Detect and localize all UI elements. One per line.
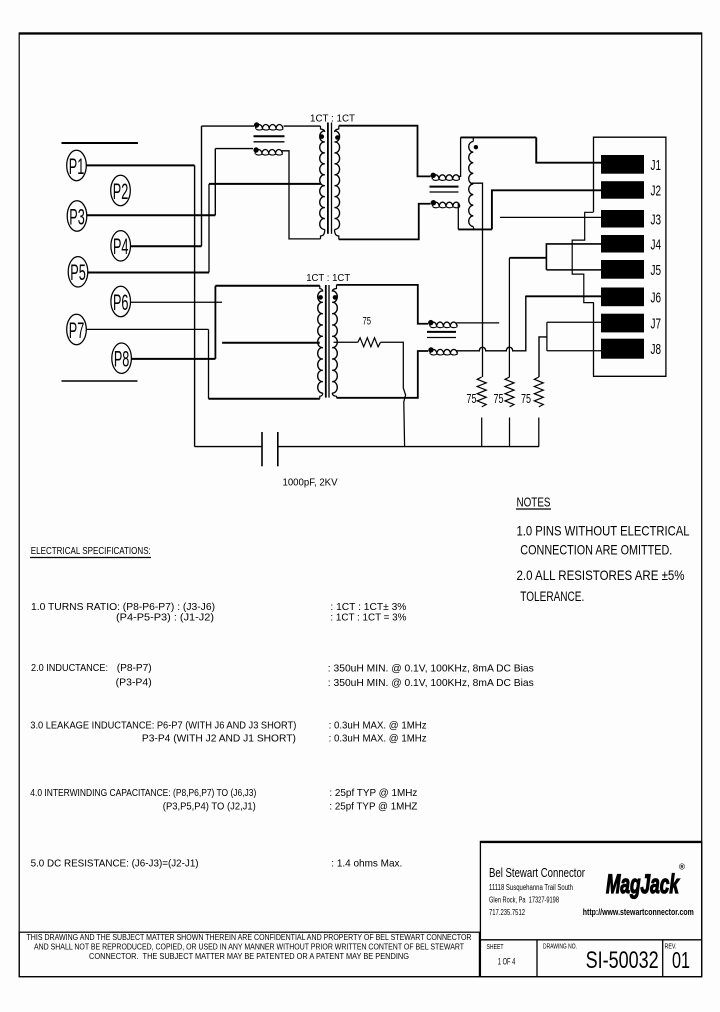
- wire choke L3 upper stub: [456, 322, 499, 324]
- svg-text:1.0 TURNS RATIO: (P8-P6-P7) :: 1.0 TURNS RATIO: (P8-P6-P7) : (J3-J6): [31, 602, 215, 613]
- pin P5: [68, 257, 88, 287]
- pin P1: [67, 150, 87, 180]
- connector pin pad J1: [601, 155, 644, 174]
- wire choke L1 lower to T1 primary bottom: [282, 151, 321, 239]
- pin P2: [111, 175, 131, 205]
- transformer T2 core line 1: [325, 285, 327, 398]
- wire P8 to T2 top: [132, 358, 216, 360]
- transformer T1 core line 1: [327, 123, 329, 234]
- svg-text:2.0 INDUCTANCE:: 2.0 INDUCTANCE:: [31, 663, 108, 674]
- svg-text:J6: J6: [651, 289, 662, 306]
- choke L2 upper winding: [431, 173, 436, 178]
- svg-text:75: 75: [467, 392, 477, 406]
- connector left edge weave: [572, 212, 594, 302]
- choke L1 core line 2: [254, 141, 285, 143]
- title block top edge thick: [480, 841, 701, 843]
- wire to J1: [536, 137, 601, 162]
- connector pin pad J6: [601, 288, 644, 307]
- wire T2 primary center tap: [222, 342, 320, 344]
- connector pin pad J4: [601, 235, 644, 253]
- svg-text:75: 75: [494, 392, 504, 406]
- connector block outline: [594, 137, 666, 376]
- wire choke L3 lower to J6 with hops: [456, 296, 601, 351]
- wire chassis dash bottom: [62, 380, 138, 382]
- disclaimer box: [19, 932, 479, 977]
- wire J7-J8 junction riser: [546, 322, 548, 351]
- svg-text:P4: P4: [113, 234, 129, 259]
- resistor R3 75 zigzag: [505, 377, 514, 407]
- wire junction down to resistor R4: [539, 337, 547, 377]
- svg-text:1CT : 1CT: 1CT : 1CT: [306, 273, 351, 284]
- svg-text:75: 75: [521, 392, 531, 406]
- svg-text:5.0 DC RESISTANCE: (J6-J3)=(J2: 5.0 DC RESISTANCE: (J6-J3)=(J2-J1): [31, 859, 199, 870]
- svg-text:P5: P5: [70, 260, 86, 285]
- wire ground rail: [278, 446, 539, 448]
- svg-text:: 0.3uH MAX. @ 1MHz: : 0.3uH MAX. @ 1MHz: [329, 734, 427, 745]
- choke L3 core line 1: [427, 331, 456, 333]
- title block outline: [480, 842, 701, 977]
- wire P5 to T1 center tap: [88, 272, 209, 274]
- svg-text:J8: J8: [651, 341, 662, 358]
- wire resistor R4 to ground rail: [538, 418, 540, 447]
- svg-text:TOLERANCE.: TOLERANCE.: [520, 589, 584, 604]
- svg-text:: 350uH MIN. @ 0.1V, 100KHz, 8: : 350uH MIN. @ 0.1V, 100KHz, 8mA DC Bias: [328, 678, 534, 689]
- wire P7 down to T2 bottom: [208, 329, 210, 398]
- svg-text:717.235.7512: 717.235.7512: [489, 908, 525, 917]
- title block row divider: [480, 939, 701, 941]
- svg-text:ELECTRICAL SPECIFICATIONS:: ELECTRICAL SPECIFICATIONS:: [31, 545, 151, 557]
- connector pin pad J3: [601, 210, 644, 228]
- svg-text:1CT : 1CT: 1CT : 1CT: [310, 113, 356, 124]
- wire P3 up to choke L1 lower winding: [214, 149, 216, 216]
- specifications heading underline: [30, 557, 151, 559]
- connector pin pad J7: [601, 314, 644, 333]
- svg-text:: 25pf TYP @ 1MHZ: : 25pf TYP @ 1MHZ: [329, 802, 417, 813]
- svg-text:Bel Stewart Connector: Bel Stewart Connector: [489, 866, 585, 880]
- svg-text:SHEET: SHEET: [487, 944, 505, 951]
- wire resistor R2 to ground rail: [481, 418, 483, 447]
- wire T1 secondary top to choke L2 upper: [339, 126, 431, 177]
- wire to J2: [492, 190, 602, 229]
- wire choke L2 upper to inductor L4 top: [459, 137, 461, 176]
- connector pin pad J8: [601, 339, 644, 359]
- wire to J3: [500, 216, 602, 218]
- svg-text:CONNECTION ARE OMITTED.: CONNECTION ARE OMITTED.: [520, 541, 672, 557]
- svg-text:J5: J5: [651, 262, 662, 279]
- wire T1 primary center tap: [209, 183, 321, 185]
- wire P6 stub: [131, 301, 223, 303]
- wire L4 top rail to J1 corner: [461, 136, 537, 138]
- svg-text:11118 Susquehanna Trail South: 11118 Susquehanna Trail South: [489, 883, 573, 892]
- wire to J5: [546, 269, 601, 271]
- svg-text:(P8-P7): (P8-P7): [117, 663, 152, 674]
- transformer T1 polarity dot primary: [320, 134, 325, 139]
- wire down to resistor R3: [508, 258, 510, 377]
- svg-text:J3: J3: [651, 211, 662, 228]
- svg-text:75: 75: [363, 315, 372, 327]
- svg-text:: 1CT : 1CT± 3%: : 1CT : 1CT± 3%: [330, 602, 406, 613]
- choke L1: [202, 125, 255, 127]
- svg-text:http://www.stewartconnector.co: http://www.stewartconnector.com: [583, 907, 694, 917]
- svg-text:: 1CT : 1CT = 3%: : 1CT : 1CT = 3%: [330, 613, 406, 624]
- transformer T2 polarity dot secondary: [333, 295, 338, 300]
- wire R3 top to J4 riser: [509, 257, 546, 259]
- choke L1 lower winding: [215, 148, 253, 150]
- svg-text:P3: P3: [69, 204, 85, 229]
- svg-text:P8: P8: [114, 347, 130, 372]
- transformer T1 core line 2: [331, 123, 333, 234]
- wire P1 down to capacitor C1: [194, 165, 196, 446]
- wire choke L2 lower down: [457, 204, 459, 230]
- svg-text:3.0 LEAKAGE INDUCTANCE: P6-P7: 3.0 LEAKAGE INDUCTANCE: P6-P7 (WITH J6 A…: [30, 721, 296, 732]
- svg-text:: 25pf TYP @ 1MHz: : 25pf TYP @ 1MHz: [329, 788, 417, 799]
- svg-text:DRAWING NO.: DRAWING NO.: [543, 944, 577, 951]
- wire P4 to choke L1 upper: [131, 245, 202, 247]
- choke L3 core line 2: [427, 337, 456, 339]
- wire T2 primary top: [215, 285, 319, 287]
- choke L3 upper winding: [428, 320, 433, 325]
- transformer T1 primary winding: [320, 131, 325, 230]
- wire T1 secondary bottom to choke L2 lower: [339, 204, 431, 240]
- notes heading underline: [516, 508, 551, 510]
- transformer T2 core line 2: [328, 285, 330, 398]
- inductor L4 polarity dot: [474, 145, 478, 149]
- svg-text:01: 01: [672, 947, 690, 973]
- pin P6: [111, 286, 131, 316]
- wire T2 primary bottom: [209, 398, 320, 400]
- wire choke L1 upper to T1 primary top: [284, 125, 321, 127]
- wire P4 up to choke L1 upper winding: [201, 126, 203, 246]
- svg-text:1.0 PINS WITHOUT ELECTRICAL: 1.0 PINS WITHOUT ELECTRICAL: [517, 522, 690, 538]
- wire to J4: [546, 244, 601, 270]
- inductor L4 winding: [472, 137, 474, 141]
- svg-text:4.0 INTERWINDING CAPACITANCE:: 4.0 INTERWINDING CAPACITANCE: (P8,P6,P7)…: [30, 788, 256, 799]
- title block divider drawing/rev: [662, 940, 664, 977]
- wire P3 to choke L1 lower: [87, 214, 215, 216]
- choke L2 core line 1: [430, 186, 459, 188]
- svg-text:2.0 ALL RESISTORES ARE ±5%: 2.0 ALL RESISTORES ARE ±5%: [517, 567, 685, 583]
- svg-text:NOTES: NOTES: [517, 495, 551, 510]
- svg-text:P6: P6: [113, 290, 129, 315]
- svg-text:(P3-P4): (P3-P4): [116, 678, 152, 689]
- wire P1 to chassis line: [86, 164, 194, 166]
- svg-text:: 0.3uH MAX. @ 1MHz: : 0.3uH MAX. @ 1MHz: [329, 721, 427, 732]
- transformer T1 polarity dot secondary: [335, 135, 340, 140]
- svg-text:P2: P2: [113, 179, 129, 204]
- resistor R1 75 zigzag: [358, 338, 381, 347]
- wire P8 up to T2 top: [214, 286, 216, 359]
- svg-text:J7: J7: [651, 316, 662, 333]
- wire L4 center tap down to resistor R2: [472, 183, 483, 377]
- wire chassis dash top: [62, 142, 139, 144]
- wire T2 secondary top to choke L3 upper: [337, 285, 429, 324]
- wire R1 down to ground rail: [381, 342, 406, 446]
- connector pin pad J2: [601, 181, 644, 199]
- svg-text:THIS DRAWING AND THE SUBJECT M: THIS DRAWING AND THE SUBJECT MATTER SHOW…: [27, 933, 472, 942]
- svg-text:J1: J1: [651, 157, 662, 174]
- wire T2 secondary tap to R1: [334, 341, 358, 343]
- wire L4 bottom: [458, 228, 492, 230]
- svg-text:AND SHALL NOT BE REPRODUCED, C: AND SHALL NOT BE REPRODUCED, COPIED, OR …: [34, 943, 464, 952]
- pin P8: [112, 343, 132, 373]
- svg-text:P1: P1: [69, 154, 85, 179]
- connector pin pad J5: [601, 260, 644, 279]
- pin P4: [111, 231, 131, 261]
- choke L2 lower winding: [431, 200, 436, 205]
- resistor R2 75 zigzag: [477, 377, 486, 407]
- wire to J8: [547, 350, 602, 352]
- wire P5 up to T1 center tap: [208, 184, 210, 273]
- wire P7 to T2 bottom: [86, 328, 208, 330]
- svg-text:P7: P7: [69, 318, 85, 343]
- choke L3 lower winding: [428, 347, 433, 352]
- pin P7: [67, 314, 87, 344]
- transformer T2 polarity dot primary: [318, 295, 323, 300]
- wire T2 secondary bottom to choke L3 lower: [337, 351, 429, 398]
- wire resistor R3 to ground rail: [509, 418, 511, 447]
- svg-text:SI-50032: SI-50032: [586, 947, 659, 974]
- wire capacitor C1 left: [195, 446, 262, 448]
- svg-text:®: ®: [679, 863, 685, 872]
- svg-text:MagJack: MagJack: [606, 869, 680, 899]
- transformer T2 primary winding: [318, 291, 323, 393]
- svg-text:1 OF 4: 1 OF 4: [498, 957, 516, 967]
- svg-text:J2: J2: [651, 182, 662, 199]
- resistor R4 75 zigzag: [534, 377, 543, 407]
- capacitor C1 plates: [261, 432, 263, 466]
- wire to J7: [547, 321, 602, 323]
- choke L1 core line 1: [254, 135, 285, 137]
- transformer T2 secondary winding: [332, 291, 337, 393]
- svg-text:CONNECTOR. THE SUBJECT MATTER: CONNECTOR. THE SUBJECT MATTER MAY BE PAT…: [89, 952, 409, 961]
- pin P3: [67, 201, 87, 231]
- svg-text:(P3,P5,P4) TO (J2,J1): (P3,P5,P4) TO (J2,J1): [163, 802, 256, 813]
- svg-text:P3-P4 (WITH J2 AND J1 SHORT): P3-P4 (WITH J2 AND J1 SHORT): [142, 734, 296, 745]
- choke L2 core line 2: [430, 191, 459, 193]
- svg-text:: 350uH MIN. @ 0.1V, 100KHz, 8: : 350uH MIN. @ 0.1V, 100KHz, 8mA DC Bias: [328, 664, 534, 675]
- transformer T1 secondary winding: [335, 131, 340, 230]
- title block divider sheet/drawing: [536, 940, 538, 977]
- svg-text:J4: J4: [651, 236, 662, 253]
- svg-text:Glen Rock, Pa 17327-9198: Glen Rock, Pa 17327-9198: [489, 896, 559, 905]
- svg-text:1000pF, 2KV: 1000pF, 2KV: [283, 478, 338, 489]
- svg-text:(P4-P5-P3) : (J1-J2): (P4-P5-P3) : (J1-J2): [116, 613, 214, 624]
- svg-text:: 1.4 ohms Max.: : 1.4 ohms Max.: [331, 859, 402, 870]
